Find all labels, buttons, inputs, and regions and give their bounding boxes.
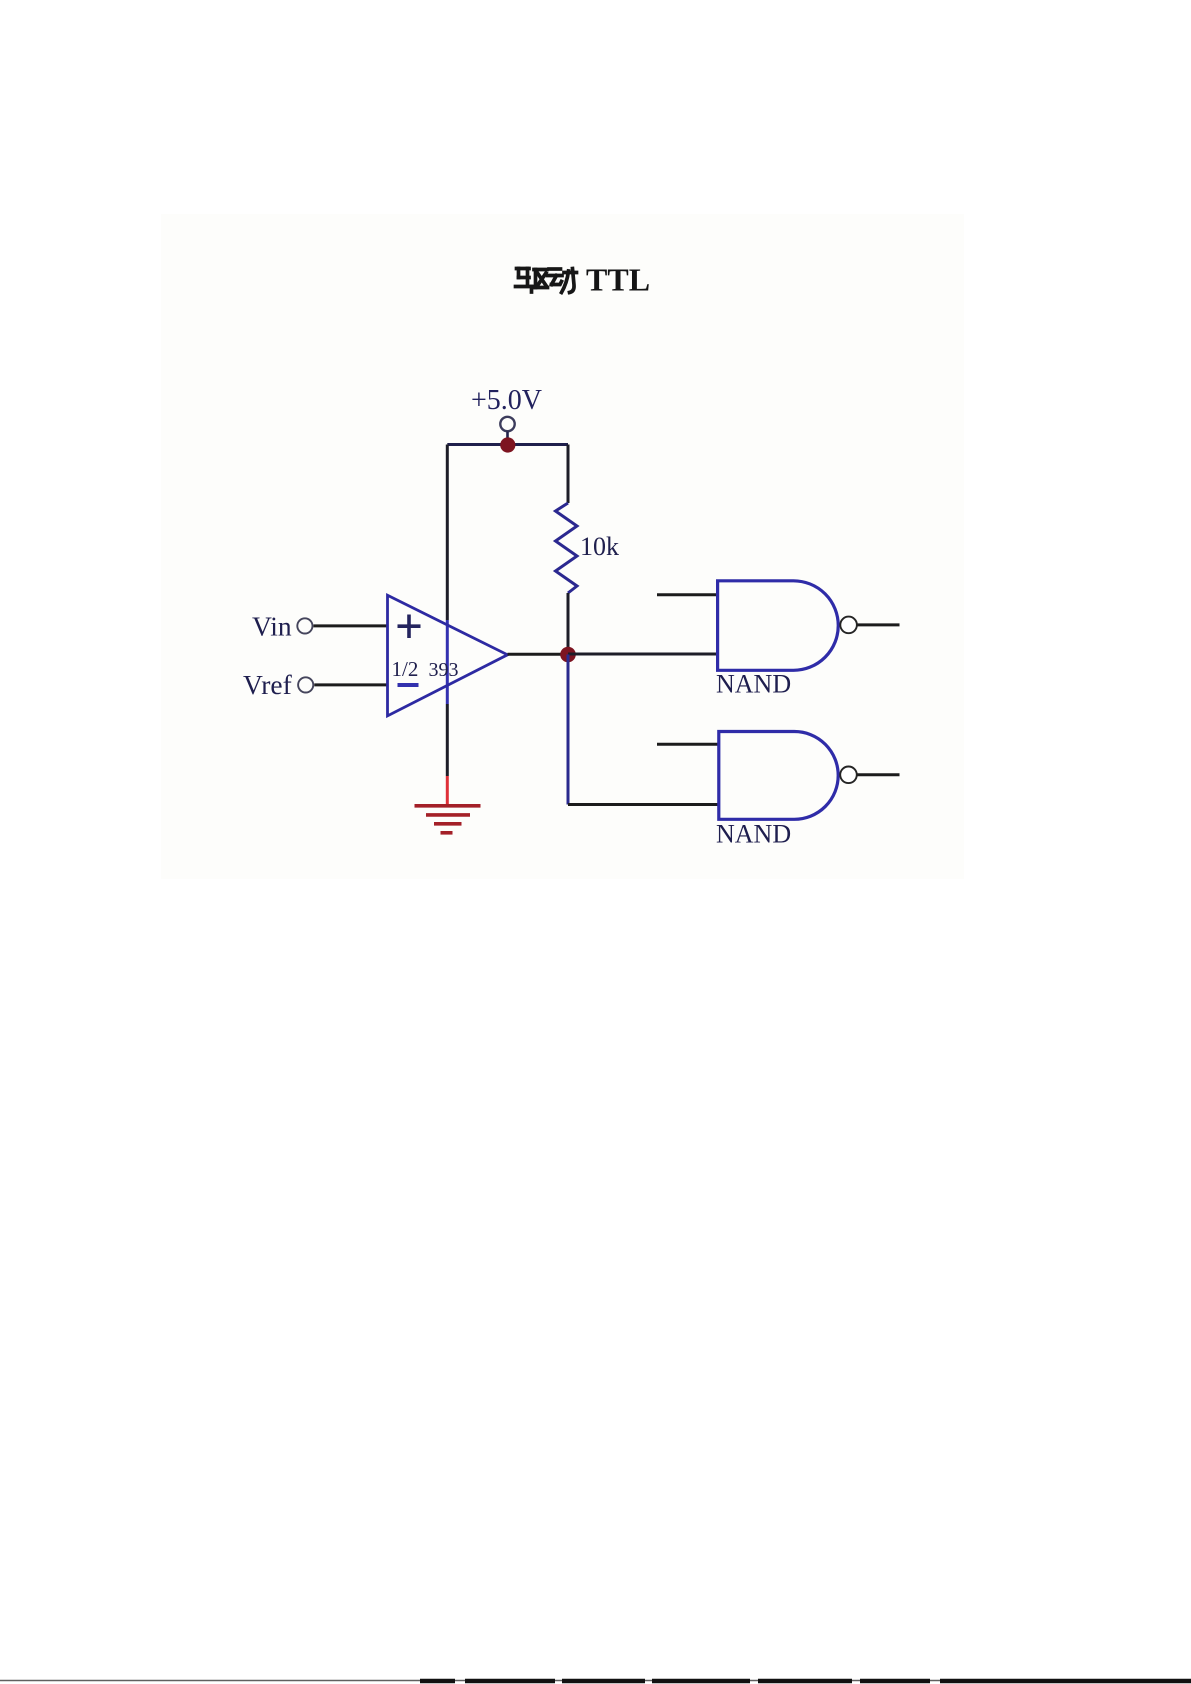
wire top rail [447, 443, 568, 446]
ground [415, 806, 481, 833]
svg-text:TTL: TTL [586, 262, 650, 298]
svg-text:10k: 10k [580, 532, 619, 561]
wire resistor bottom lead [567, 593, 570, 654]
title 驱 (hand-drawn glyph) [516, 269, 548, 293]
op-amp minus input symbol [398, 683, 419, 687]
NAND1 output bubble [840, 617, 857, 634]
op-amp plus input symbol [398, 615, 421, 639]
scan area backdrop [161, 214, 964, 879]
Vin terminal circle [297, 618, 312, 633]
node output junction dot [560, 647, 576, 663]
wire junction to NAND1 [568, 653, 718, 656]
svg-text:393: 393 [429, 659, 459, 681]
+5V terminal circle [500, 417, 514, 431]
bottom page edge dark band [420, 1679, 1191, 1684]
title 动 (hand-drawn glyph) [548, 269, 577, 293]
NAND gate 1 [718, 581, 839, 671]
resistor R 10k zigzag [556, 503, 578, 593]
Vref terminal circle [298, 677, 313, 692]
wire left vertical upper (black) [446, 445, 449, 621]
svg-text:Vin: Vin [252, 611, 292, 642]
wire bottom horizontal to NAND2 [568, 803, 719, 806]
NAND2 output bubble [840, 767, 857, 784]
wire left vertical through op-amp (blue) [446, 620, 449, 704]
NAND gate 2 [719, 732, 838, 820]
svg-text:+5.0V: +5.0V [471, 385, 542, 416]
op-amp U1 1/2 393 [388, 595, 508, 716]
wire resistor top lead [567, 445, 570, 504]
svg-text:NAND: NAND [716, 819, 791, 848]
svg-text:Vref: Vref [243, 669, 293, 700]
node power junction dot [500, 437, 515, 452]
wire NAND2 top input stub [657, 743, 719, 746]
wire NAND1 output [858, 623, 900, 626]
bottom page edge thin line [0, 1680, 1191, 1682]
wire ground stub (red) [446, 776, 449, 805]
wire op-amp output [508, 653, 569, 656]
wire Vin to op-amp [314, 624, 388, 627]
wire junction down (blue) [567, 655, 570, 805]
wire left vertical lower (black) [446, 704, 449, 776]
svg-text:1/2: 1/2 [392, 657, 419, 681]
wire terminal stub [506, 432, 509, 446]
svg-text:NAND: NAND [716, 669, 791, 698]
wire NAND2 output [857, 773, 899, 776]
wire NAND1 top input stub [657, 593, 718, 596]
wire Vref to op-amp [314, 683, 387, 686]
